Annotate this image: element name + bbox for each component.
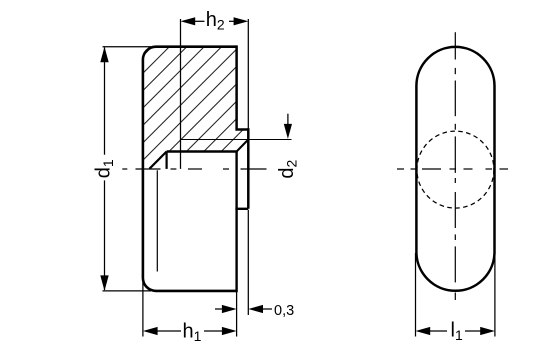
svg-text:h1: h1 [183, 321, 202, 345]
d1 dimension [103, 47, 152, 291]
section hatching [19, 30, 360, 180]
cone base edge [166, 152, 168, 169]
svg-text:l1: l1 [451, 320, 463, 344]
vertical centerline right view [454, 32, 456, 300]
svg-text:d1: d1 [93, 159, 117, 178]
h1 dimension [143, 278, 237, 337]
flange face [247, 128, 250, 209]
0,3 dimension [247, 210, 249, 315]
countersink chamfer [237, 140, 249, 152]
h2 dimension [181, 19, 249, 169]
svg-text:d2: d2 [276, 159, 300, 178]
inner edge line lower half [156, 170, 158, 271]
l1 dimension [416, 253, 495, 337]
d2 leader [248, 139, 291, 141]
thread line [181, 139, 249, 141]
bore line [167, 150, 237, 152]
flange bottom step [235, 208, 248, 210]
right view stadium outline [416, 47, 494, 291]
body right edge lower [235, 152, 237, 293]
horizontal centerline right view [397, 168, 508, 170]
svg-text:0,3: 0,3 [274, 303, 294, 319]
hidden circle [417, 131, 494, 208]
svg-text:h2: h2 [206, 9, 225, 33]
bore cone chamfer [150, 152, 167, 169]
body outline left view [143, 47, 237, 291]
body right edge upper [237, 45, 249, 129]
centerline left view [122, 168, 266, 170]
